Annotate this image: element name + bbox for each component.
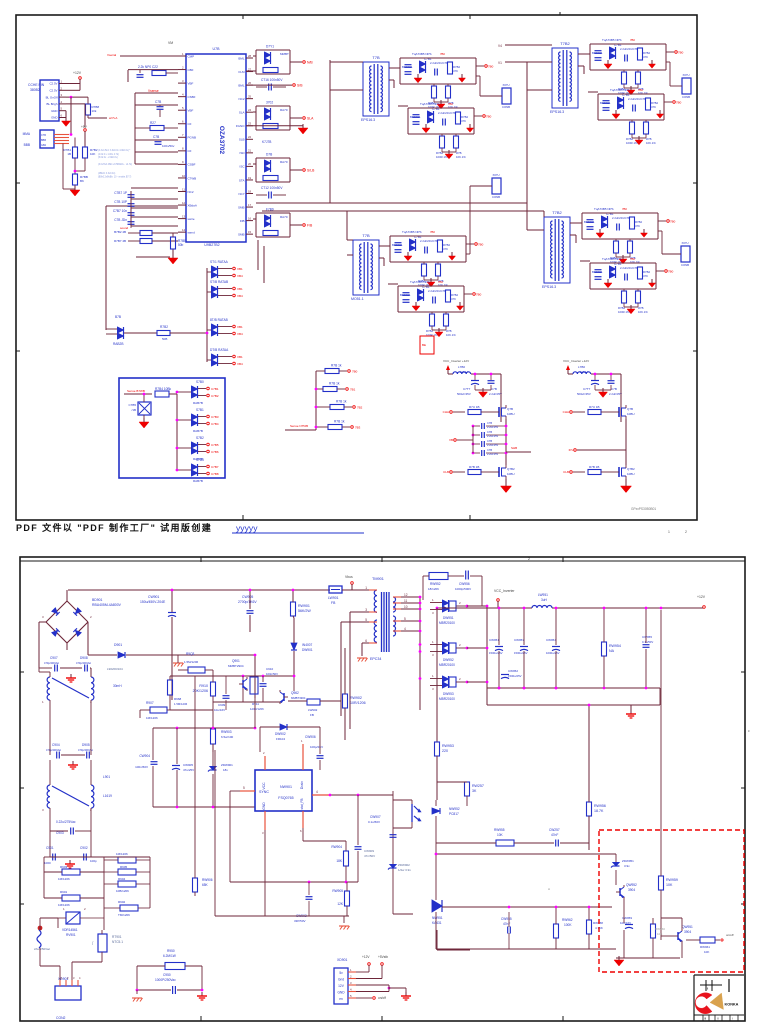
svg-text:65K: 65K — [202, 883, 209, 887]
svg-text:BE: BE — [422, 343, 426, 347]
svg-text:MBR20100: MBR20100 — [439, 621, 455, 625]
svg-text:DW901: DW901 — [302, 648, 313, 652]
svg-text:R7B 1B: R7B 1B — [589, 465, 599, 469]
svg-text:NW901: NW901 — [280, 785, 292, 789]
svg-text:stat_FB: stat_FB — [300, 799, 304, 810]
svg-text:KONKA: KONKA — [725, 1003, 739, 1007]
svg-text:19: 19 — [248, 176, 252, 180]
svg-text:1/2w 3.9v: 1/2w 3.9v — [398, 868, 411, 872]
svg-text:10K: 10K — [657, 932, 662, 936]
svg-text:CMP: CMP — [188, 54, 195, 58]
svg-text:MMBT3904: MMBT3904 — [291, 696, 306, 700]
svg-text:R7U 1B: R7U 1B — [469, 405, 480, 409]
svg-text:X07U: X07U — [683, 73, 690, 77]
svg-text:47K: 47K — [651, 105, 656, 109]
svg-text:Sense B7WB: Sense B7WB — [127, 389, 145, 393]
svg-text:10K.1%: 10K.1% — [456, 155, 466, 159]
svg-text:7B0: 7B0 — [622, 207, 627, 211]
svg-text:R7B 1k: R7B 1k — [336, 400, 347, 404]
svg-text:R7U 1B: R7U 1B — [589, 405, 600, 409]
svg-text:CT12 100n50V: CT12 100n50V — [261, 186, 283, 190]
svg-text:Vbus: Vbus — [345, 575, 353, 579]
svg-text:C903: C903 — [56, 831, 64, 835]
svg-text:2.2uF201/C7B: 2.2uF201/C7B — [428, 289, 446, 293]
svg-text:47K: 47K — [453, 69, 458, 73]
svg-text:7B0: 7B0 — [440, 52, 445, 56]
svg-text:1500u/25V: 1500u/25V — [508, 674, 522, 678]
svg-text:10BU: 10BU — [627, 412, 635, 416]
svg-text:TM901: TM901 — [372, 577, 384, 581]
svg-text:1.5M/1206: 1.5M/1206 — [184, 660, 199, 664]
svg-text:FGNO: FGNO — [236, 124, 245, 128]
svg-text:1000p/500V: 1000p/500V — [455, 587, 471, 591]
svg-text:CF: CF — [188, 122, 192, 126]
svg-text:RW959: RW959 — [666, 878, 678, 882]
svg-text:(`: (` — [92, 941, 94, 945]
svg-text:20: 20 — [248, 162, 252, 166]
svg-text:XBdaA: XBdaA — [188, 203, 197, 207]
svg-text:+5V: +5V — [81, 125, 88, 129]
svg-text:2.2uF201/C7B: 2.2uF201/C7B — [438, 111, 456, 115]
svg-text:VB1: VB1 — [237, 325, 243, 329]
svg-text:DW902: DW902 — [275, 732, 286, 736]
svg-text:VBF: VBF — [188, 109, 194, 113]
svg-text:V1: V1 — [498, 61, 502, 65]
svg-text:C7B4: C7B4 — [211, 422, 219, 426]
svg-text:CSBF: CSBF — [188, 163, 196, 167]
svg-text:A: A — [548, 887, 550, 891]
svg-text:DW953: DW953 — [443, 692, 454, 696]
svg-text:C7B7 1P: C7B7 1P — [114, 191, 127, 195]
svg-text:C7T7: C7T7 — [583, 387, 591, 391]
svg-text:X07U: X07U — [493, 173, 500, 177]
svg-text:RV901: RV901 — [66, 933, 76, 937]
svg-text:12: 12 — [182, 201, 186, 205]
svg-text:CT16 100n50V: CT16 100n50V — [261, 78, 283, 82]
svg-text:10K.1%: 10K.1% — [646, 141, 656, 145]
svg-text:L7B0: L7B0 — [458, 365, 465, 369]
svg-text:L1619: L1619 — [103, 794, 112, 798]
svg-text:ST/B RATAB: ST/B RATAB — [210, 280, 228, 284]
svg-text:(5.0k 0v - 2.0k0.0v): (5.0k 0v - 2.0k0.0v) — [98, 157, 118, 159]
svg-text:10K: 10K — [497, 833, 504, 837]
svg-text:CONB: CONB — [502, 105, 510, 109]
svg-text:D908: D908 — [80, 656, 88, 660]
svg-text:DW951: DW951 — [443, 616, 454, 620]
svg-text:III: III — [706, 987, 709, 991]
svg-text:C7B: C7B — [487, 421, 492, 425]
svg-text:IN4007: IN4007 — [302, 643, 313, 647]
svg-text:470p/400Vac: 470p/400Vac — [76, 661, 92, 665]
svg-text:swire: swire — [188, 217, 195, 221]
svg-text:CON2: CON2 — [56, 1016, 66, 1020]
svg-text:VDR14561: VDR14561 — [62, 928, 78, 932]
svg-text:4: 4 — [316, 790, 318, 794]
svg-text:SHB: SHB — [511, 446, 517, 450]
svg-text:en: en — [339, 997, 343, 1001]
svg-text:3: 3 — [365, 608, 367, 612]
svg-text:SMB: SMB — [238, 232, 245, 236]
svg-text:7B0: 7B0 — [630, 38, 635, 42]
svg-text:1M/1206: 1M/1206 — [116, 852, 128, 856]
svg-text:CW905: CW905 — [183, 763, 193, 767]
svg-text:FIB: FIB — [240, 219, 245, 223]
svg-text:2.2uF201/C7B: 2.2uF201/C7B — [612, 216, 630, 220]
svg-text:TqA73B5 NPS: TqA73B5 NPS — [602, 257, 622, 261]
svg-text:C904: C904 — [52, 743, 60, 747]
svg-text:S7B3: S7B3 — [196, 458, 204, 462]
svg-text:2AL/250Vac: 2AL/250Vac — [34, 947, 51, 951]
svg-text:500uF/35V: 500uF/35V — [577, 392, 591, 396]
svg-text:D905: D905 — [82, 743, 90, 747]
svg-text:23: 23 — [248, 122, 252, 126]
svg-text:5: 5 — [404, 617, 406, 621]
svg-text:ISC: ISC — [239, 165, 245, 169]
svg-text:RA70: RA70 — [280, 215, 288, 219]
svg-text:CW956: CW956 — [459, 582, 470, 586]
svg-text:QW951: QW951 — [682, 925, 693, 929]
svg-text:7B0: 7B0 — [668, 270, 674, 274]
svg-text:EPS16.3: EPS16.3 — [550, 110, 564, 114]
svg-text:1M/1206: 1M/1206 — [58, 877, 70, 881]
svg-text:14: 14 — [182, 228, 186, 232]
svg-text:470p/400Vac: 470p/400Vac — [46, 748, 62, 752]
svg-text:RW904: RW904 — [331, 845, 342, 849]
svg-text:NW951: NW951 — [432, 916, 443, 920]
svg-text:L7B0: L7B0 — [578, 365, 585, 369]
svg-text:3uH: 3uH — [541, 598, 548, 602]
svg-text:RAB7B: RAB7B — [193, 479, 203, 483]
svg-text:RW960: RW960 — [655, 927, 665, 931]
svg-text:NC2: NC2 — [238, 97, 244, 101]
svg-text:3.9v: 3.9v — [624, 864, 630, 868]
svg-text:RAB7B: RAB7B — [193, 401, 203, 405]
svg-text:18/1206: 18/1206 — [428, 587, 439, 591]
svg-text:KA431: KA431 — [432, 921, 442, 925]
svg-text:7B0: 7B0 — [448, 102, 453, 106]
svg-text:FR104: FR104 — [276, 737, 285, 741]
svg-text:IPx: IPx — [569, 448, 574, 452]
svg-text:K7J7B: K7J7B — [262, 140, 271, 144]
svg-text:LW951: LW951 — [538, 593, 548, 597]
svg-text:22: 22 — [248, 135, 252, 139]
svg-text:CW257: CW257 — [549, 828, 560, 832]
svg-text:C7T7: C7T7 — [463, 387, 471, 391]
svg-text:V4: V4 — [498, 44, 502, 48]
svg-text:QW952: QW952 — [626, 883, 637, 887]
svg-text:7B0: 7B0 — [430, 230, 435, 234]
svg-text:1500u/25V: 1500u/25V — [489, 651, 503, 655]
svg-text:C909: C909 — [218, 703, 226, 707]
svg-text:BBB: BBB — [41, 139, 46, 142]
svg-text:8T/B RATAB: 8T/B RATAB — [210, 318, 228, 322]
svg-text:GND: GND — [51, 109, 57, 113]
svg-text:16: 16 — [248, 216, 252, 220]
svg-text:L902FR104: L902FR104 — [107, 667, 123, 671]
svg-text:Q7B: Q7B — [507, 407, 513, 411]
svg-text:CLB: CLB — [563, 470, 569, 474]
svg-text:3904: 3904 — [628, 888, 635, 892]
svg-text:VCC_Inverter +12V: VCC_Inverter +12V — [443, 359, 469, 363]
svg-text:GB2: GB2 — [41, 144, 47, 147]
svg-text:R7B 1B: R7B 1B — [469, 465, 479, 469]
svg-text:Sense N7505: Sense N7505 — [290, 424, 309, 428]
svg-text:CW901: CW901 — [148, 595, 159, 599]
svg-text:1: 1 — [365, 586, 367, 590]
svg-text:+12V: +12V — [362, 955, 370, 959]
svg-text:LW902: LW902 — [308, 708, 318, 712]
svg-text:150u/450V-204E: 150u/450V-204E — [140, 600, 166, 604]
svg-text:III: III — [704, 1017, 706, 1021]
svg-text:R904: R904 — [118, 877, 126, 881]
svg-text:C2.5V: C2.5V — [49, 82, 57, 86]
svg-text:R901: R901 — [60, 890, 68, 894]
svg-text:1B: 1B — [67, 152, 71, 156]
svg-text:0.1u/50V: 0.1u/50V — [642, 640, 653, 644]
svg-text:S/LB: S/LB — [307, 169, 315, 173]
svg-text:C7B7: C7B7 — [211, 465, 219, 469]
svg-text:C7B6: C7B6 — [211, 450, 219, 454]
svg-text:C7B: C7B — [491, 387, 497, 391]
svg-text:RW903: RW903 — [221, 730, 232, 734]
svg-text:10u/16V: 10u/16V — [214, 708, 225, 712]
svg-text:VB4: VB4 — [237, 332, 243, 336]
svg-text:NA: NA — [609, 649, 615, 653]
svg-text:w/7LA: w/7LA — [109, 116, 117, 120]
svg-text:RW901: RW901 — [298, 604, 310, 608]
svg-text:NC7: NC7 — [238, 192, 244, 196]
svg-text:C910: C910 — [266, 667, 274, 671]
svg-text:3904: 3904 — [684, 930, 691, 934]
svg-text:11: 11 — [182, 187, 185, 191]
svg-text:6: 6 — [365, 639, 367, 643]
svg-text:NC2: NC2 — [188, 190, 194, 194]
svg-text:C7B8: C7B8 — [211, 472, 219, 476]
svg-text:6.2M/1W: 6.2M/1W — [163, 954, 176, 958]
svg-text:RW952: RW952 — [430, 582, 441, 586]
svg-text:S7B1: S7B1 — [196, 408, 204, 412]
svg-text:SLA: SLA — [239, 111, 245, 115]
svg-text:N/B: N/B — [307, 61, 313, 65]
svg-text:CONB: CONB — [682, 95, 690, 99]
svg-text:R7B 1k: R7B 1k — [331, 364, 342, 368]
svg-text:1000u/25V: 1000u/25V — [546, 651, 560, 655]
svg-text:Vserial: Vserial — [107, 53, 117, 57]
svg-text:RAB2B: RAB2B — [113, 342, 123, 346]
svg-text:CW907: CW907 — [370, 815, 381, 819]
svg-text:56K/2W: 56K/2W — [298, 609, 311, 613]
svg-text:C950: C950 — [163, 973, 171, 977]
svg-text:CW952: CW952 — [508, 669, 518, 673]
svg-text:2.2uF35V: 2.2uF35V — [487, 425, 499, 429]
svg-text:DW952: DW952 — [443, 658, 454, 662]
svg-text:0.1u/50V: 0.1u/50V — [368, 820, 380, 824]
svg-text:RW961: RW961 — [700, 945, 710, 949]
svg-text:4: 4 — [404, 627, 406, 631]
svg-text:C902: C902 — [80, 846, 88, 850]
svg-text:24: 24 — [248, 108, 252, 112]
svg-text:380B2: 380B2 — [30, 88, 40, 92]
svg-text:R9Q3: R9Q3 — [186, 652, 195, 656]
svg-text:33P/50V: 33P/50V — [294, 919, 306, 923]
svg-text:(B0k0.2vBvBb: 10 - vmake.B7.7): (B0k0.2vBvBb: 10 - vmake.B7.7) — [98, 177, 132, 179]
svg-text:CW909: CW909 — [364, 849, 374, 853]
svg-text:ST/1 RATAA: ST/1 RATAA — [210, 260, 229, 264]
svg-text:VB1: VB1 — [237, 267, 243, 271]
svg-text:7B3: 7B3 — [355, 426, 361, 430]
svg-text:Q962: Q962 — [291, 691, 299, 695]
svg-text:120R/1206: 120R/1206 — [250, 707, 264, 711]
svg-text:RW958: RW958 — [593, 921, 603, 925]
svg-text:2.2uF/35V: 2.2uF/35V — [489, 392, 502, 396]
svg-text:EPS16.3: EPS16.3 — [361, 118, 375, 122]
svg-text:S7B2: S7B2 — [196, 436, 204, 440]
svg-text:10K.1%: 10K.1% — [638, 310, 648, 314]
svg-text:Vsense: Vsense — [148, 89, 159, 93]
svg-text:30mH: 30mH — [113, 684, 122, 688]
svg-text:100p/2KV: 100p/2KV — [310, 745, 323, 749]
svg-text:500uF/35V: 500uF/35V — [457, 392, 471, 396]
svg-text:C907: C907 — [50, 656, 58, 660]
svg-text:1: 1 — [668, 530, 670, 534]
svg-text:L901: L901 — [103, 775, 110, 779]
svg-text:5: 5 — [365, 618, 367, 622]
svg-text:C7B5: C7B5 — [211, 443, 219, 447]
svg-text:FB: FB — [310, 713, 314, 717]
svg-text:C7B: C7B — [155, 100, 161, 104]
svg-text:TqA73B5 NPS: TqA73B5 NPS — [412, 52, 432, 56]
svg-text:2.2uF35V: 2.2uF35V — [487, 443, 499, 447]
svg-text:CONB: CONB — [681, 263, 689, 267]
svg-text:R950: R950 — [167, 949, 175, 953]
svg-text:7B0: 7B0 — [676, 101, 682, 105]
svg-text:CW955: CW955 — [642, 635, 652, 639]
svg-text:2.2uF201/C7B: 2.2uF201/C7B — [620, 47, 638, 51]
svg-text:CW904: CW904 — [139, 754, 150, 758]
svg-text:12: 12 — [404, 593, 408, 597]
svg-text:Q7B2: Q7B2 — [507, 467, 515, 471]
svg-text:GND: GND — [262, 802, 266, 810]
svg-text:17: 17 — [248, 203, 252, 207]
svg-text:1.5M/1206: 1.5M/1206 — [174, 702, 188, 706]
svg-text:C901: C901 — [46, 846, 54, 850]
svg-text:C7B2: C7B2 — [211, 394, 219, 398]
svg-text:Q7B: Q7B — [627, 407, 633, 411]
svg-text:C7B 10P: C7B 10P — [114, 200, 127, 204]
svg-text:+12V: +12V — [73, 71, 82, 75]
svg-text:3702: 3702 — [266, 101, 273, 105]
svg-text:ZDW951: ZDW951 — [622, 859, 634, 863]
svg-text:C7B: C7B — [487, 439, 492, 443]
svg-text:18.7K: 18.7K — [594, 809, 604, 813]
svg-text:R7B4 10Bk: R7B4 10Bk — [155, 387, 172, 391]
svg-text:7B0: 7B0 — [670, 220, 676, 224]
svg-text:ZDW902: ZDW902 — [398, 863, 410, 867]
svg-text:on/off: on/off — [726, 933, 734, 937]
svg-text:/1B: /1B — [131, 408, 136, 412]
svg-text:47K: 47K — [443, 247, 448, 251]
svg-text:10u/16V: 10u/16V — [620, 921, 631, 925]
svg-text:VB1: VB1 — [237, 287, 243, 291]
svg-text:T7B: T7B — [362, 233, 370, 238]
svg-text:B7B2 4B: B7B2 4B — [114, 230, 126, 234]
svg-text:CW955: CW955 — [501, 917, 512, 921]
svg-text:10K: 10K — [666, 883, 673, 887]
svg-text:7B1: 7B1 — [350, 388, 356, 392]
svg-text:2.2uF35V: 2.2uF35V — [487, 452, 499, 456]
svg-text:NTC5.1: NTC5.1 — [112, 940, 123, 944]
svg-text:RW953: RW953 — [442, 744, 454, 748]
svg-text:TqA73B5 NPS: TqA73B5 NPS — [602, 38, 622, 42]
svg-text:RW906: RW906 — [202, 878, 213, 882]
svg-text:10k: 10k — [92, 109, 97, 113]
svg-text:R968: R968 — [174, 697, 182, 701]
svg-text:18v: 18v — [223, 768, 228, 772]
svg-text:MMA: MMA — [23, 132, 31, 136]
svg-text:BL Brigh: BL Brigh — [47, 102, 58, 106]
svg-text:10K.1%: 10K.1% — [446, 333, 456, 337]
svg-text:100n/50V: 100n/50V — [135, 765, 148, 769]
svg-text:U7B: U7B — [213, 47, 221, 51]
svg-text:D7B: D7B — [266, 153, 272, 157]
svg-text:RT901: RT901 — [112, 935, 122, 939]
svg-text:EPC34: EPC34 — [370, 657, 381, 661]
svg-text:RW902: RW902 — [350, 696, 362, 700]
svg-text:RW257: RW257 — [472, 784, 484, 788]
svg-text:BBB: BBB — [24, 143, 30, 147]
svg-text:12K: 12K — [337, 902, 344, 906]
svg-text:11: 11 — [404, 599, 408, 603]
svg-text:C7B JDn: C7B JDn — [114, 218, 127, 222]
svg-text:RAB7B: RAB7B — [193, 429, 203, 433]
svg-text:10K: 10K — [704, 950, 709, 954]
svg-text:CW951: CW951 — [489, 638, 499, 642]
svg-text:47u/25V: 47u/25V — [183, 768, 194, 772]
svg-text:GND: GND — [51, 116, 57, 120]
svg-text:LW901: LW901 — [328, 596, 339, 600]
svg-text:GPxxPS30B0B01: GPxxPS30B0B01 — [631, 507, 656, 511]
svg-text:28: 28 — [248, 54, 252, 58]
svg-text:C7B7 10n: C7B7 10n — [113, 209, 127, 213]
svg-text:S/B: S/B — [297, 84, 303, 88]
svg-text:ISD: ISD — [239, 151, 245, 155]
svg-text:47K: 47K — [643, 55, 648, 59]
svg-text:10: 10 — [404, 605, 408, 609]
svg-text:RW954: RW954 — [609, 644, 621, 648]
svg-text:(4Bkhz 3.3v0.0v): (4Bkhz 3.3v0.0v) — [98, 173, 115, 175]
svg-text:7B0: 7B0 — [352, 370, 358, 374]
svg-text:R7B2: R7B2 — [160, 325, 168, 329]
svg-text:R27: R27 — [150, 121, 156, 125]
svg-text:100n/50v: 100n/50v — [162, 144, 175, 148]
svg-text:13: 13 — [182, 214, 186, 218]
svg-text:VB1: VB1 — [237, 355, 243, 359]
svg-text:7B0: 7B0 — [638, 88, 643, 92]
svg-text:2.2uF35V: 2.2uF35V — [487, 434, 499, 438]
svg-text:SMB: SMB — [238, 205, 245, 209]
svg-text:RA70: RA70 — [280, 108, 288, 112]
svg-text:MO51.1: MO51.1 — [351, 297, 364, 301]
svg-text:R907: R907 — [146, 701, 154, 705]
svg-text:SLA: SLA — [307, 117, 314, 121]
svg-text:2.2uF201/C7B: 2.2uF201/C7B — [420, 239, 438, 243]
svg-text:18K: 18K — [336, 859, 343, 863]
svg-text:MBR20100: MBR20100 — [439, 697, 455, 701]
svg-text:T7B2: T7B2 — [552, 210, 562, 215]
svg-text:47n/50V: 47n/50V — [364, 854, 375, 858]
svg-text:PC817: PC817 — [449, 812, 459, 816]
svg-text:TqA73B5 NPS: TqA73B5 NPS — [402, 230, 422, 234]
